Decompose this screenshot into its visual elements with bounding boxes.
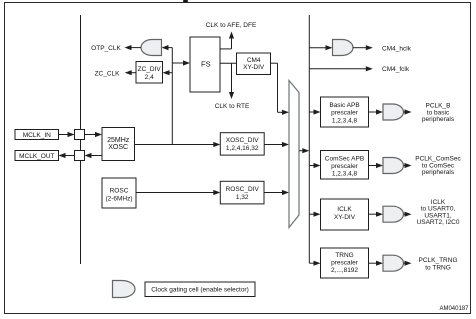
svg-text:to TRNG: to TRNG xyxy=(425,265,451,272)
wire pad S2 to MCLK_OUT xyxy=(64,155,75,157)
prescaler TRNG xyxy=(321,248,369,278)
svg-text:OTP_CLK: OTP_CLK xyxy=(91,45,121,52)
clock gating cell OTP (mirrored) xyxy=(141,40,162,56)
svg-text:AM040187: AM040187 xyxy=(439,306,469,312)
wire OTP gate to OTP_CLK xyxy=(130,47,142,49)
wire gate to CM4_hclk xyxy=(353,47,368,49)
wire FS to CM4 XY-DIV xyxy=(220,62,237,64)
svg-text:ZC_DIV: ZC_DIV xyxy=(138,66,162,73)
svg-text:prescaler: prescaler xyxy=(331,260,359,267)
legend box xyxy=(145,282,255,297)
svg-text:ZC_CLK: ZC_CLK xyxy=(95,70,121,77)
divider ROSC_DIV 1,32 xyxy=(220,181,264,204)
wire mux output to distribution bus xyxy=(299,150,304,152)
wire CM4 XY-DIV to mux input 1 xyxy=(271,62,278,64)
box MCLK_OUT xyxy=(15,151,59,161)
clock gating cell PCLK_B xyxy=(383,104,404,120)
wire riser to OTP gate input xyxy=(167,47,173,49)
svg-text:CLK to AFE, DFE: CLK to AFE, DFE xyxy=(206,22,257,29)
svg-text:PCLK_TRNG: PCLK_TRNG xyxy=(418,257,457,264)
divider CM4 XY-DIV xyxy=(237,53,271,75)
svg-text:XOSC_DIV: XOSC_DIV xyxy=(226,137,260,144)
wire riser to ZC_DIV input xyxy=(168,72,173,74)
wire ICLK prescaler to gate xyxy=(369,213,379,215)
wire bus to ComSec APB prescaler xyxy=(309,165,315,167)
wire TRNG prescaler to gate xyxy=(369,262,379,264)
svg-text:MCLK_OUT: MCLK_OUT xyxy=(19,153,54,160)
clock gating cell CM4_hclk xyxy=(333,40,354,56)
svg-text:Clock gating cell (enable sele: Clock gating cell (enable selector) xyxy=(151,287,249,294)
svg-text:1,2,3,4,8: 1,2,3,4,8 xyxy=(332,117,358,124)
svg-text:1,2,4,16,32: 1,2,4,16,32 xyxy=(226,145,259,152)
clock gating cell PCLK_ComSec xyxy=(383,158,404,174)
divider XOSC_DIV 1,2,4,16,32 xyxy=(220,133,264,155)
wire ZC_DIV to ZC_CLK xyxy=(130,72,136,74)
box MCLK_IN xyxy=(15,130,59,140)
wire XOSC_DIV to mux input 2 xyxy=(264,144,284,146)
svg-text:MCLK_IN: MCLK_IN xyxy=(23,132,51,139)
wire ROSC to ROSC_DIV xyxy=(136,192,215,194)
svg-text:1,2,3,4,8: 1,2,3,4,8 xyxy=(332,171,358,178)
synthesizer FS xyxy=(190,37,220,92)
svg-text:ComSec APB: ComSec APB xyxy=(325,155,364,162)
svg-text:CM4_hclk: CM4_hclk xyxy=(382,45,412,52)
wire bus to CM4_hclk gate xyxy=(309,47,327,49)
svg-text:CM4_fclk: CM4_fclk xyxy=(382,66,410,73)
svg-text:ROSC: ROSC xyxy=(110,188,129,195)
wire ICLK gate output xyxy=(404,213,407,215)
svg-text:Basic APB: Basic APB xyxy=(329,102,359,109)
svg-text:XY-DIV: XY-DIV xyxy=(243,64,265,71)
wire XOSC to pad S2 xyxy=(90,155,103,157)
svg-text:prescaler: prescaler xyxy=(331,163,359,170)
svg-text:USART2, I2C0: USART2, I2C0 xyxy=(417,219,460,226)
svg-text:peripherals: peripherals xyxy=(422,116,455,123)
wire pad S1 to XOSC input xyxy=(85,134,98,136)
wire ROSC_DIV to mux input 3 xyxy=(264,192,284,194)
wire distribution bus (vertical) xyxy=(308,15,310,263)
svg-text:ROSC_DIV: ROSC_DIV xyxy=(226,186,260,193)
svg-text:(2-6MHz): (2-6MHz) xyxy=(105,196,132,203)
svg-text:XOSC: XOSC xyxy=(108,144,128,151)
divider ZC_DIV 2,4 xyxy=(136,62,163,84)
mux clock selector xyxy=(289,81,299,228)
wire bus to CM4_fclk xyxy=(309,68,368,70)
svg-text:peripherals: peripherals xyxy=(422,169,455,176)
wire riser to FS input xyxy=(172,62,185,64)
svg-text:2,4: 2,4 xyxy=(145,74,154,81)
prescaler ComSec APB xyxy=(321,151,369,180)
clock gating cell PCLK_TRNG xyxy=(383,255,404,271)
wire XOSC output to XOSC_DIV (junction at riser) xyxy=(135,144,216,146)
svg-text:prescaler: prescaler xyxy=(331,110,359,117)
legend clock gating cell symbol xyxy=(113,281,136,298)
wire ComSec APB prescaler to gate xyxy=(369,165,379,167)
svg-text:CM4: CM4 xyxy=(247,57,261,64)
prescaler ICLK xyxy=(321,199,369,230)
svg-text:1,32: 1,32 xyxy=(236,194,249,201)
wire to CLK-to-RTE arrow (down) xyxy=(231,63,233,93)
svg-text:TRNG: TRNG xyxy=(335,252,353,259)
svg-text:2,...,8192: 2,...,8192 xyxy=(331,267,358,274)
wire FS to CLK-to-AFE arrow (up) xyxy=(220,48,232,50)
wire PCLK_B gate output xyxy=(404,111,407,113)
wire bus to Basic APB prescaler xyxy=(309,111,315,113)
wire riser to FS / ZC_DIV / OTP gate xyxy=(171,48,173,145)
oscillator XOSC 25MHz xyxy=(102,128,135,161)
wire left MCLK bus (vertical) xyxy=(80,15,82,264)
svg-text:FS: FS xyxy=(201,60,211,69)
wire bus to TRNG prescaler xyxy=(309,262,315,264)
svg-text:25MHz: 25MHz xyxy=(107,137,130,144)
oscillator ROSC 2-6MHz xyxy=(102,178,136,208)
pad square S1 (MCLK_IN) xyxy=(75,130,85,140)
pad square S2 (MCLK_OUT) xyxy=(75,151,85,161)
wire MCLK_IN to pad S1 xyxy=(59,134,70,136)
wire Basic APB prescaler to gate xyxy=(369,111,379,113)
svg-text:XY-DIV: XY-DIV xyxy=(334,214,356,221)
wire PCLK_ComSec gate output xyxy=(404,165,407,167)
svg-text:CLK to RTE: CLK to RTE xyxy=(215,103,250,110)
wire PCLK_TRNG gate output xyxy=(404,262,407,264)
wire bus to ICLK prescaler xyxy=(309,213,315,215)
svg-text:ICLK: ICLK xyxy=(337,206,352,213)
prescaler Basic APB xyxy=(321,97,369,127)
clock gating cell ICLK xyxy=(383,206,404,222)
